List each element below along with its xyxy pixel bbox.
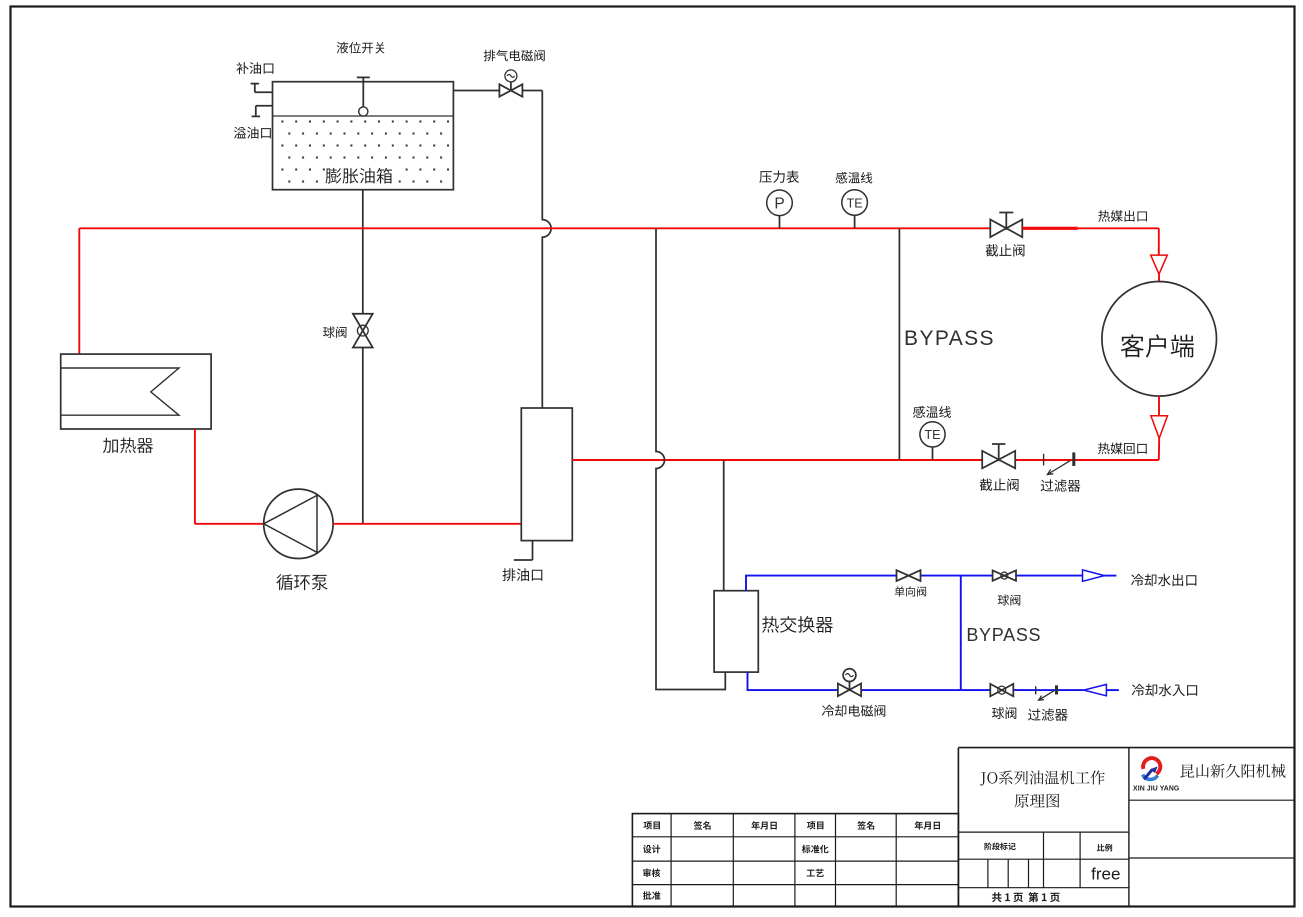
signature table texts <box>643 821 940 900</box>
label 感温线 (return) <box>913 406 951 418</box>
temperature sensor TE (return) <box>920 422 945 460</box>
flow arrow: customer return <box>1151 416 1168 439</box>
red pipe: heater outlet down <box>194 429 196 524</box>
title block grid <box>958 748 1294 907</box>
svg-text:TE: TE <box>925 428 941 442</box>
red return pipe after stop valve <box>1015 459 1159 461</box>
svg-text:XIN JIU YANG: XIN JIU YANG <box>1133 786 1179 793</box>
label 冷却电磁阀 <box>822 705 885 717</box>
label 客户端 <box>1121 334 1194 357</box>
label 压力表 <box>759 170 799 182</box>
label 补油口 <box>236 62 273 74</box>
red pipe: customer bottom down <box>1158 396 1160 416</box>
label 过滤器 (return) <box>1041 479 1081 491</box>
red supply pipe left riser <box>78 228 80 354</box>
filter 过滤器 (return) <box>1044 452 1074 474</box>
liquid level switch stem and float <box>357 77 370 116</box>
svg-text:BYPASS: BYPASS <box>904 327 995 350</box>
customer 客户端 circle <box>1102 282 1217 397</box>
red return pipe from separator <box>572 459 982 461</box>
label 冷却水出口 <box>1131 574 1196 586</box>
wire: ball valve down to pump suction line <box>362 347 364 524</box>
blue bypass line (cooling) <box>960 576 962 691</box>
label 截止阀 (return) <box>980 478 1019 490</box>
label 共1页 第1页 <box>992 892 1060 902</box>
label 热媒出口 <box>1098 210 1147 222</box>
company logo <box>1143 758 1161 779</box>
stop valve 截止阀 (supply) <box>990 213 1022 238</box>
circulation pump 循环泵 <box>264 489 333 558</box>
wire: exchanger return with hop over red return line <box>656 228 725 689</box>
label 单向阀 <box>895 586 926 596</box>
label 循环泵 <box>276 574 327 590</box>
label 阶段标记 <box>984 842 1015 850</box>
label 液位开关 <box>337 42 385 54</box>
label 膨胀油箱 <box>326 168 393 184</box>
red supply pipe thick segment <box>1022 227 1078 230</box>
filter 过滤器 (cooling inlet) <box>1036 685 1057 700</box>
label 球阀 (expansion line) <box>323 326 347 338</box>
fill port 补油口 pipe <box>251 84 273 93</box>
label 排油口 <box>502 568 542 581</box>
red pipe: arrow to customer top <box>1158 274 1160 281</box>
blue cooling inlet pipe <box>748 672 1084 690</box>
expansion tank oil level line <box>273 115 454 117</box>
flow arrow: into customer <box>1151 255 1168 274</box>
cooling solenoid valve 冷却电磁阀 <box>838 669 861 696</box>
red pipe: heater to pump <box>195 523 264 525</box>
label 过滤器 (cooling inlet) <box>1028 708 1068 720</box>
wire: red return tee down to exchanger inlet <box>723 460 725 591</box>
oil drain port 排油口 pipe <box>514 541 533 560</box>
label 热交换器 <box>762 616 833 633</box>
label 排气电磁阀 <box>484 50 545 62</box>
stop valve 截止阀 (return) <box>982 444 1015 468</box>
red supply pipe to customer corner <box>1078 227 1159 229</box>
blue pipe stub before inlet arrow <box>1106 689 1119 691</box>
heater element symbol <box>61 368 179 415</box>
heater 加热器 body <box>61 354 211 429</box>
ball valve 球阀 (vertical) <box>353 314 373 348</box>
wire: tank bottom to ball valve <box>362 190 364 314</box>
wire: exhaust valve to downpipe <box>522 90 542 92</box>
label 加热器 <box>103 437 153 453</box>
label 球阀 (cooling inlet) <box>992 707 1016 719</box>
label 溢油口 <box>234 127 271 139</box>
red supply pipe (top horizontal) <box>79 227 990 229</box>
label 截止阀 (supply) <box>986 244 1025 256</box>
flow arrow: cooling water in <box>1084 684 1107 695</box>
company name 昆山新久阳机械 <box>1180 764 1285 778</box>
signature table grid <box>632 814 958 907</box>
blue cooling outlet pipe <box>746 576 1083 591</box>
ball valve 球阀 (cooling outlet) <box>993 570 1016 580</box>
red pipe: return corner <box>1158 438 1160 460</box>
blue pipe stub after outlet arrow <box>1104 575 1116 577</box>
title text 原理图 <box>1015 794 1060 808</box>
svg-text:TE: TE <box>847 196 863 210</box>
red pipe: supply corner down <box>1158 228 1160 255</box>
flow arrow: cooling water out <box>1083 570 1105 581</box>
svg-text:free: free <box>1091 865 1120 884</box>
title text JO系列油温机工作 <box>980 770 1105 785</box>
oil bypass line <box>898 228 900 460</box>
expansion tank 膨胀油箱 body <box>273 82 454 190</box>
heat exchanger 热交换器 body <box>714 591 758 672</box>
exhaust solenoid valve 排气电磁阀 <box>499 70 522 97</box>
wire: tank to exhaust valve <box>453 90 499 92</box>
pressure gauge 压力表 P <box>767 190 793 228</box>
label 热媒回口 <box>1098 443 1147 455</box>
temperature sensor TE (supply) <box>842 190 868 229</box>
label 球阀 (cooling outlet) <box>998 594 1021 605</box>
svg-text:P: P <box>774 195 784 212</box>
oil fill dots inside expansion tank <box>281 121 449 183</box>
svg-text:BYPASS: BYPASS <box>966 625 1041 645</box>
label 冷却水入口 <box>1132 684 1197 696</box>
overflow port 溢油口 pipe <box>252 106 273 117</box>
oil separator tank body <box>521 408 572 541</box>
check valve 单向阀 <box>897 570 921 581</box>
red pipe: pump discharge to oil tank <box>333 523 521 525</box>
label 感温线 (supply) <box>836 172 873 184</box>
wire: downpipe with hop over red supply line <box>542 91 551 409</box>
ball valve 球阀 (cooling inlet) <box>990 684 1013 696</box>
label 比例 <box>1097 844 1112 852</box>
